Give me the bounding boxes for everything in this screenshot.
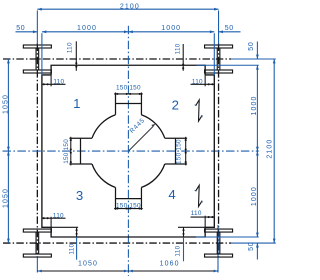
- svg-text:50: 50: [16, 25, 25, 32]
- break mark near label 4 blue ticks: [195, 190, 203, 202]
- svg-text:1050: 1050: [3, 188, 10, 208]
- dimension 110 vertical bottom-left: [76, 227, 78, 237]
- svg-text:1000: 1000: [251, 96, 258, 116]
- left slot sides and cap: [69, 138, 92, 164]
- svg-text:50: 50: [248, 242, 255, 251]
- grid left bottom extension (blue): [36, 257, 38, 273]
- top chain 50/1000/1000/50: dim lines: [16, 32, 241, 76]
- column beam top-left: [23, 45, 51, 73]
- bottom slot sides and cap: [116, 187, 142, 209]
- dimension 110 vertical bottom-right: [183, 227, 185, 237]
- dimension 110 horizontal bottom-right: [191, 216, 215, 218]
- grid centerline vertical right (black dash-dot): [218, 44, 220, 258]
- svg-text:110: 110: [53, 78, 64, 85]
- dimension 150/150 right slot: [185, 137, 187, 166]
- svg-text:110: 110: [192, 78, 203, 85]
- svg-text:150: 150: [63, 152, 70, 164]
- extension for 110 h bottom-left: [50, 217, 52, 228]
- dimension 2100 right: arrows: [273, 59, 276, 243]
- svg-text:110: 110: [175, 43, 182, 54]
- svg-text:110: 110: [174, 245, 181, 256]
- left chain arrows: [7, 59, 10, 243]
- top slot sides and cap: [116, 93, 142, 115]
- dimension 2100 right: line: [273, 59, 275, 243]
- extension for 110 v bottom-right: [178, 226, 205, 228]
- svg-text:2100: 2100: [120, 3, 140, 10]
- svg-text:R445: R445: [129, 117, 147, 135]
- central hole: arc top-left: [92, 115, 115, 138]
- column beam bottom-left: [23, 229, 51, 257]
- svg-text:4: 4: [168, 187, 175, 202]
- right chain arrows: [256, 55, 259, 248]
- dimension 110 vertical top-left: [75, 41, 77, 71]
- svg-text:1050: 1050: [78, 260, 98, 267]
- left chain 1050/1050: dim line: [7, 59, 9, 243]
- grid left top extension (blue): [36, 10, 38, 45]
- extension for 110 h bottom-right: [204, 216, 206, 228]
- svg-text:150: 150: [175, 152, 182, 164]
- svg-text:3: 3: [76, 188, 83, 203]
- grid centerline horizontal top (black dash-dot): [3, 58, 231, 60]
- plate centerline horizontal (blue dash-dot): [3, 150, 259, 152]
- grid right bottom extension 1060 (blue): [217, 225, 219, 273]
- svg-text:1050: 1050: [3, 94, 10, 114]
- top chain arrows: [33, 30, 223, 33]
- extension lines: [41, 33, 43, 75]
- grid top extension to right chain (blue): [231, 58, 276, 60]
- svg-text:1000: 1000: [161, 25, 181, 32]
- svg-text:110: 110: [191, 210, 202, 217]
- break mark near label 2: [196, 100, 203, 121]
- extension for 110 h top-left: [50, 76, 52, 87]
- right chain 50/1000/1000/50: dim lines: [196, 42, 259, 260]
- bottom chain 1050/1060: dim line: [37, 270, 218, 272]
- extension for 110 v bottom-left: [51, 226, 78, 228]
- dimension 110 vertical top-right: [182, 44, 184, 71]
- bottom chain arrows: [37, 270, 218, 273]
- grid bottom extension to right chain (blue): [231, 242, 276, 244]
- svg-text:50: 50: [248, 42, 255, 51]
- grid right top extension (blue): [218, 10, 220, 45]
- dimension 2100 top: arrows: [37, 8, 218, 11]
- dimension 150/150 top slot: [114, 93, 143, 95]
- plate centerline vertical (blue dash-dot): [127, 26, 129, 276]
- svg-text:110: 110: [53, 212, 64, 219]
- right slot sides and cap: [165, 138, 187, 164]
- central hole: arc bottom-right: [141, 164, 164, 187]
- extension for 110 h top-right: [204, 76, 206, 87]
- dimension 2100 top: line: [37, 8, 218, 10]
- svg-text:50: 50: [225, 25, 234, 32]
- svg-text:150: 150: [116, 84, 128, 91]
- svg-text:150: 150: [129, 84, 141, 91]
- base plate outline with corner notches: [42, 65, 214, 237]
- svg-text:2100: 2100: [266, 139, 273, 159]
- svg-text:1: 1: [73, 96, 80, 111]
- break mark near label 4: [196, 185, 203, 206]
- svg-text:1000: 1000: [251, 186, 258, 206]
- break mark near label 2 blue ticks: [195, 105, 203, 117]
- svg-text:110: 110: [68, 243, 75, 254]
- column beam bottom-right: [205, 229, 233, 257]
- svg-text:1000: 1000: [77, 25, 97, 32]
- radius leader R445: [129, 126, 153, 150]
- dimension 150/150 bottom slot: [114, 208, 143, 210]
- svg-text:2: 2: [172, 98, 179, 113]
- central hole: arc bottom-left: [92, 164, 115, 187]
- svg-text:150: 150: [63, 139, 70, 151]
- dimension 110 horizontal bottom-left: [42, 217, 66, 219]
- central hole: arc top-right: [141, 115, 164, 138]
- column beam top-right: [205, 45, 233, 73]
- grid centerline horizontal bottom (black dash-dot): [3, 242, 231, 244]
- dimension 150/150 left slot: [70, 137, 72, 166]
- svg-text:150: 150: [116, 202, 128, 209]
- svg-text:150: 150: [175, 139, 182, 151]
- svg-text:110: 110: [67, 42, 74, 53]
- svg-text:1060: 1060: [160, 260, 180, 267]
- dimension 110 horizontal top-left: [42, 83, 66, 85]
- dimension 110 horizontal top-right: [191, 83, 215, 85]
- extension lines: [197, 64, 259, 66]
- svg-text:150: 150: [129, 202, 141, 209]
- grid centerline vertical left (black dash-dot): [36, 44, 38, 258]
